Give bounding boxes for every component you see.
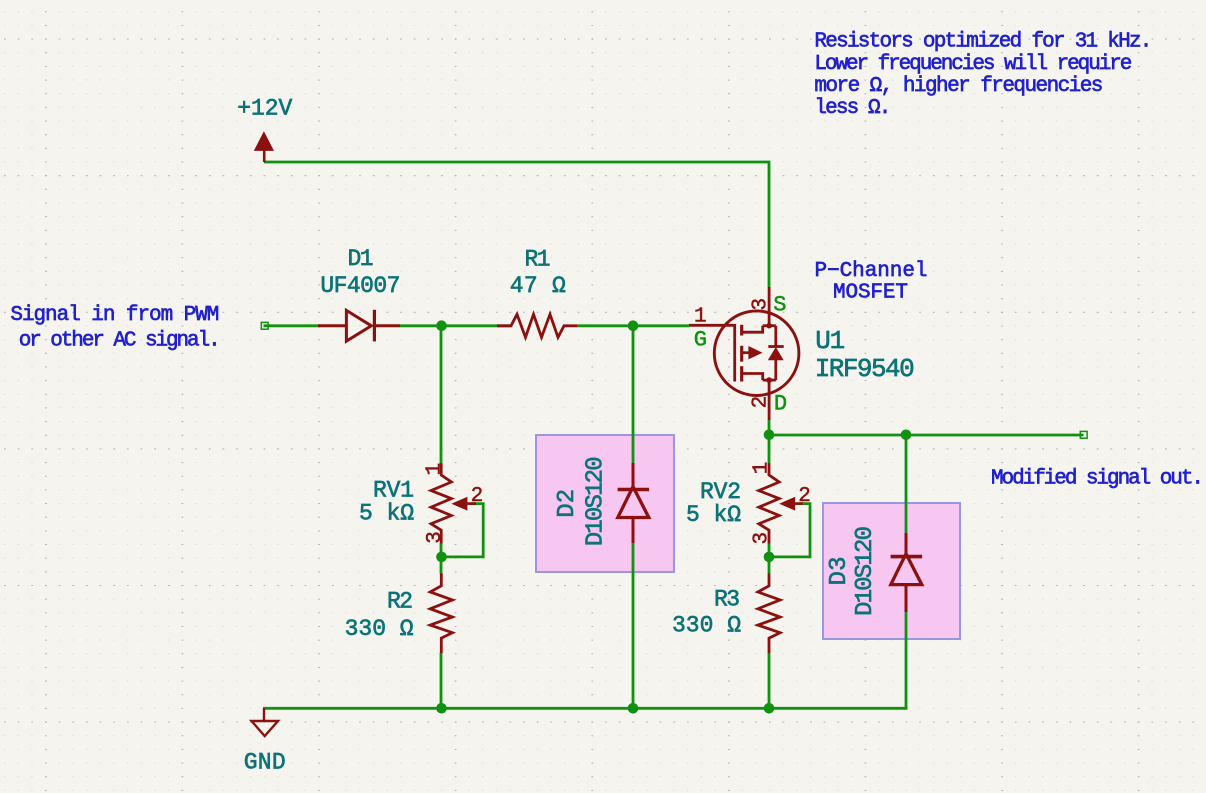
svg-text:D2: D2 — [554, 489, 581, 518]
wire output rail — [769, 434, 1084, 437]
svg-text:more Ω, higher frequencies: more Ω, higher frequencies — [814, 75, 1103, 98]
diode D3 — [891, 533, 923, 612]
svg-text:2: 2 — [749, 396, 772, 409]
svg-text:47 Ω: 47 Ω — [510, 273, 566, 299]
junction ground R3 branch — [764, 703, 775, 714]
wire ground rail — [263, 707, 907, 710]
svg-text:G: G — [694, 328, 707, 353]
U1 body arrow — [743, 351, 749, 354]
wire RV1 wiper loop — [441, 504, 483, 557]
RV2 wiper pin — [794, 502, 803, 505]
RV2 wiper arrow — [781, 498, 795, 510]
svg-text:D3: D3 — [826, 557, 853, 586]
svg-text:GND: GND — [244, 750, 286, 776]
junction RV1 wiper node — [436, 552, 447, 563]
U1 body diode cathode bar — [768, 345, 783, 348]
svg-text:P−Channel: P−Channel — [815, 260, 928, 283]
svg-text:U1: U1 — [815, 326, 845, 356]
power symbol +12V — [255, 132, 274, 162]
svg-text:less Ω.: less Ω. — [814, 97, 891, 120]
U1 source connection — [742, 326, 763, 333]
U1 backbone top edge — [763, 324, 776, 327]
junction ground RV1 branch — [436, 703, 447, 714]
junction gate node — [628, 320, 639, 331]
svg-text:or other AC signal.: or other AC signal. — [19, 330, 221, 353]
RV1 wiper arrow — [453, 498, 467, 510]
junction RV2 wiper node — [764, 552, 775, 563]
U1 channel bar middle — [740, 346, 743, 362]
potentiometer RV2 — [759, 463, 779, 543]
svg-text:IRF9540: IRF9540 — [815, 354, 915, 384]
svg-text:D10S120: D10S120 — [582, 456, 609, 546]
wire output node down to D3 — [905, 435, 908, 533]
resistor R3 — [758, 573, 780, 653]
svg-text:3: 3 — [424, 531, 447, 544]
svg-text:2: 2 — [471, 485, 484, 508]
wire drain to output node — [768, 420, 771, 435]
svg-text:S: S — [773, 292, 786, 317]
junction node A — [436, 320, 447, 331]
U1 channel bar bottom — [740, 366, 743, 381]
wire output node down to RV2 — [768, 435, 771, 464]
svg-text:Signal in from PWM: Signal in from PWM — [10, 304, 219, 327]
svg-text:330 Ω: 330 Ω — [672, 613, 741, 639]
diode D2 — [618, 463, 650, 543]
wire RV2 to R3 — [768, 543, 771, 573]
svg-text:RV1: RV1 — [373, 477, 414, 503]
svg-text:2: 2 — [798, 485, 811, 508]
U1 drain pin — [768, 380, 771, 420]
junction drain output node — [764, 430, 775, 441]
resistor R2 — [430, 573, 452, 653]
svg-text:3: 3 — [749, 298, 772, 311]
U1 source pin — [768, 287, 771, 326]
wire R3 to ground rail — [768, 653, 771, 709]
wire RV1 to R2 — [440, 543, 443, 573]
svg-text:5 kΩ: 5 kΩ — [686, 502, 741, 528]
wire D3 to ground rail corner — [905, 612, 908, 708]
svg-text:UF4007: UF4007 — [320, 273, 400, 299]
rectangle note D3 box — [823, 503, 960, 639]
svg-text:MOSFET: MOSFET — [833, 281, 908, 304]
U1 backbone bottom edge — [763, 379, 776, 382]
diode D1 — [318, 310, 400, 342]
resistor R1 — [497, 314, 577, 337]
svg-text:D10S120: D10S120 — [852, 526, 879, 616]
U1 body diode triangle — [768, 347, 784, 360]
svg-text:330 Ω: 330 Ω — [345, 616, 414, 642]
ground symbol GND — [252, 708, 279, 736]
wire D2 to ground rail — [632, 543, 635, 708]
svg-text:1: 1 — [424, 463, 447, 476]
wire D1 to node A — [400, 324, 511, 327]
U1 gate pin — [689, 325, 735, 381]
svg-text:1: 1 — [694, 305, 707, 328]
svg-text:+12V: +12V — [237, 96, 292, 122]
svg-text:3: 3 — [751, 532, 774, 545]
output wire end square — [1080, 431, 1087, 438]
wire gate node down to D2 — [632, 326, 635, 463]
wire +12V rail — [264, 162, 769, 287]
wire node A down to RV1 — [440, 326, 443, 464]
U1 body diode branch upper — [774, 326, 777, 347]
U1 channel bar top — [740, 325, 743, 336]
junction ground D2 branch — [628, 703, 639, 714]
wire RV2 wiper loop — [769, 504, 810, 557]
svg-text:Modified signal out.: Modified signal out. — [991, 467, 1204, 490]
wire R1 to gate node — [577, 324, 689, 327]
svg-text:R1: R1 — [525, 246, 551, 272]
rectangle note D2 box — [536, 435, 674, 572]
wire signal input — [264, 324, 321, 327]
junction D3 branch node — [901, 430, 912, 441]
MOSFET U1 body circle — [714, 311, 799, 396]
svg-text:D: D — [774, 392, 787, 417]
svg-text:Lower frequencies will require: Lower frequencies will require — [814, 53, 1132, 76]
svg-text:R2: R2 — [387, 589, 413, 615]
input wire end square — [261, 322, 268, 329]
U1 body diode branch lower — [774, 360, 777, 380]
svg-text:5 kΩ: 5 kΩ — [359, 500, 414, 526]
svg-text:R3: R3 — [714, 587, 740, 613]
wire R2 to ground rail — [440, 653, 443, 709]
svg-text:Resistors optimized for 31 kHz: Resistors optimized for 31 kHz. — [814, 31, 1152, 54]
potentiometer RV1 — [431, 463, 451, 543]
svg-text:D1: D1 — [348, 246, 374, 272]
RV1 wiper pin — [467, 502, 476, 505]
svg-text:1: 1 — [751, 462, 774, 475]
U1 drain connection — [742, 374, 763, 381]
